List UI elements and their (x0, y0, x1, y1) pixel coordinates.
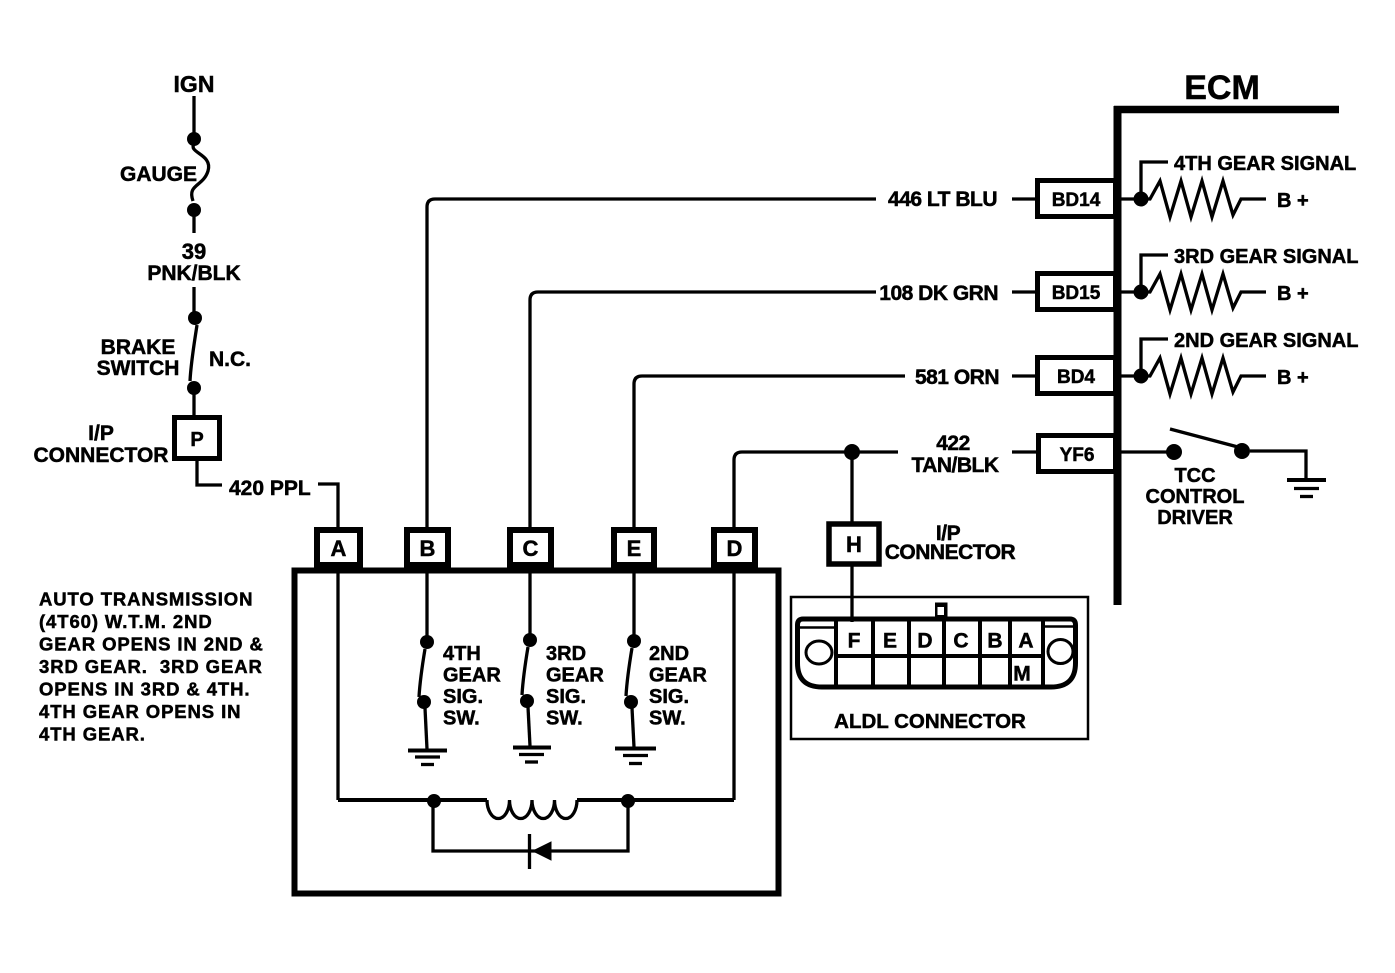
diode cathode bar (528, 834, 531, 869)
ALDL right eyelet (1048, 640, 1073, 664)
terminal box C (510, 530, 551, 565)
svg-text:CONNECTOR: CONNECTOR (34, 444, 169, 467)
svg-text:IGN: IGN (174, 71, 215, 97)
svg-text:ECM: ECM (1184, 69, 1260, 107)
3rd gear switch wire from C (528, 568, 531, 636)
3rd gear switch bottom dot (520, 694, 534, 708)
terminal box B (407, 530, 448, 565)
svg-text:B: B (420, 536, 436, 561)
wire fuse to label 39 (192, 214, 195, 233)
svg-text:B: B (987, 630, 1002, 653)
junction dot 4th gear signal (1134, 192, 1149, 207)
svg-text:I/P: I/P (88, 422, 114, 445)
connector BD14 (1038, 181, 1116, 217)
wire up to 2ND GEAR SIGNAL label (1141, 339, 1168, 376)
svg-text:A: A (331, 536, 347, 561)
svg-text:BD14: BD14 (1052, 190, 1101, 211)
solenoid coil (487, 800, 577, 819)
wire 581 into BD4 (1012, 374, 1040, 377)
4th gear switch top dot (420, 635, 434, 649)
note text AUTO TRANSMISSION (39, 589, 264, 745)
ALDL outer box (791, 597, 1088, 739)
svg-text:SWITCH: SWITCH (97, 357, 180, 380)
svg-text:OPENS IN 3RD & 4TH.: OPENS IN 3RD & 4TH. (39, 679, 250, 700)
ALDL cell grid (836, 619, 1043, 687)
ground 3rd gear switch (513, 746, 551, 750)
wire IGN to fuse (192, 96, 195, 136)
svg-text:SW.: SW. (443, 708, 480, 730)
4th gear switch bottom dot (417, 695, 431, 709)
wire 446 into BD14 (1012, 197, 1040, 200)
terminal box E (614, 530, 654, 565)
2nd gear switch wire from E (632, 568, 635, 638)
svg-text:108 DK GRN: 108 DK GRN (879, 282, 998, 305)
connector YF6 (1039, 436, 1116, 472)
svg-text:581 ORN: 581 ORN (915, 366, 999, 389)
svg-text:SW.: SW. (649, 708, 686, 730)
svg-text:SIG.: SIG. (546, 686, 586, 708)
connector BD4 (1038, 358, 1116, 394)
svg-text:(4T60) W.T.M. 2ND: (4T60) W.T.M. 2ND (39, 611, 213, 632)
wire terminal E up and right to 581 ORN (634, 376, 905, 530)
wire 108 into BD15 (1012, 290, 1040, 293)
svg-text:2ND GEAR SIGNAL: 2ND GEAR SIGNAL (1174, 330, 1358, 352)
svg-text:SIG.: SIG. (443, 686, 483, 708)
fuse GAUGE symbol (192, 144, 209, 201)
4th gear switch wire to ground (425, 708, 427, 749)
svg-text:BRAKE: BRAKE (101, 336, 176, 359)
ECM top horizontal line (1114, 106, 1339, 114)
wire 420 PPL to terminal A (318, 484, 338, 528)
svg-text:BD4: BD4 (1057, 367, 1095, 388)
resistor 3rd gear signal (1141, 274, 1266, 310)
svg-text:DRIVER: DRIVER (1157, 507, 1233, 529)
svg-text:GEAR: GEAR (546, 665, 604, 687)
svg-text:4TH GEAR SIGNAL: 4TH GEAR SIGNAL (1174, 153, 1356, 175)
wire TCC switch to ground (1250, 451, 1306, 478)
ground 2nd gear switch (615, 747, 656, 751)
svg-text:SIG.: SIG. (649, 686, 689, 708)
wire BD4 to junction (1118, 374, 1141, 377)
svg-text:M: M (1013, 663, 1031, 686)
wire H to ALDL connector (850, 564, 853, 622)
svg-text:B +: B + (1277, 367, 1309, 389)
svg-text:AUTO TRANSMISSION: AUTO TRANSMISSION (39, 589, 253, 610)
3rd gear switch blade (522, 647, 528, 695)
svg-text:YF6: YF6 (1060, 445, 1095, 466)
svg-text:GEAR: GEAR (649, 665, 707, 687)
svg-text:F: F (848, 630, 861, 653)
svg-text:E: E (627, 536, 642, 561)
TCC switch right dot (1234, 443, 1250, 459)
I/P connector P box (175, 418, 220, 459)
wire terminal D up and right to 422 TAN/BLK (734, 452, 898, 530)
svg-text:4TH: 4TH (443, 643, 481, 665)
svg-text:C: C (953, 630, 968, 653)
wire P connector down and right (197, 460, 222, 485)
svg-text:E: E (883, 630, 897, 653)
3rd gear switch wire to ground (528, 707, 530, 746)
2nd gear switch wire to ground (632, 708, 634, 747)
resistor 2nd gear signal (1141, 358, 1266, 394)
TCC switch blade (1170, 429, 1238, 447)
svg-text:PNK/BLK: PNK/BLK (147, 262, 240, 285)
svg-text:GEAR: GEAR (443, 665, 501, 687)
svg-text:4TH GEAR OPENS IN: 4TH GEAR OPENS IN (39, 701, 241, 722)
svg-text:3RD GEAR SIGNAL: 3RD GEAR SIGNAL (1174, 246, 1358, 268)
ALDL left eyelet (806, 641, 832, 664)
svg-text:2ND: 2ND (649, 643, 689, 665)
3rd gear switch top dot (523, 633, 537, 647)
wire up to 3RD GEAR SIGNAL label (1141, 255, 1168, 292)
junction dot 3rd gear signal (1134, 285, 1149, 300)
svg-text:D: D (727, 536, 743, 561)
svg-text:TAN/BLK: TAN/BLK (911, 454, 998, 477)
4th gear switch blade (419, 649, 425, 697)
brake switch bottom dot (187, 381, 201, 395)
svg-text:420 PPL: 420 PPL (229, 477, 311, 500)
2nd gear switch bottom dot (624, 695, 638, 709)
resistor 4th gear signal (1141, 181, 1266, 217)
svg-text:39: 39 (182, 239, 206, 264)
terminal box A (317, 530, 360, 565)
svg-text:B +: B + (1277, 190, 1309, 212)
svg-text:D: D (917, 630, 932, 653)
ALDL cap inner lines (798, 626, 836, 629)
svg-text:C: C (523, 536, 539, 561)
wire brake switch to I/P connector P (192, 394, 195, 416)
svg-text:BD15: BD15 (1052, 283, 1101, 304)
wire BD14 to junction (1118, 197, 1141, 200)
junction dot bus right (621, 794, 635, 808)
2nd gear switch top dot (627, 634, 641, 648)
junction dot above fuse (187, 132, 201, 146)
svg-text:CONNECTOR: CONNECTOR (885, 541, 1016, 564)
ECM vertical line (1114, 106, 1122, 605)
2nd gear switch blade (626, 648, 632, 696)
svg-text:GEAR OPENS IN 2ND &: GEAR OPENS IN 2ND & (39, 634, 264, 655)
wire junction down to H (850, 452, 853, 524)
junction dot 422 to H (844, 444, 860, 460)
junction dot 2nd gear signal (1134, 369, 1149, 384)
svg-text:TCC: TCC (1174, 465, 1215, 487)
wire terminal B up and right to 446 LT BLU (427, 199, 876, 530)
wire BD15 to junction (1118, 290, 1141, 293)
svg-text:B +: B + (1277, 283, 1309, 305)
svg-text:CONTROL: CONTROL (1146, 486, 1245, 508)
brake switch blade (190, 325, 197, 381)
ground 4th gear switch (408, 749, 447, 753)
svg-text:SW.: SW. (546, 708, 583, 730)
ground TCC (1287, 478, 1326, 482)
diode branch wire (433, 801, 628, 851)
svg-text:3RD: 3RD (546, 643, 586, 665)
svg-text:P: P (190, 429, 203, 451)
junction dot below fuse (187, 203, 201, 217)
svg-text:N.C.: N.C. (209, 348, 251, 371)
connector BD15 (1038, 274, 1116, 310)
4th gear switch wire from B (425, 568, 428, 638)
diode triangle (533, 842, 551, 860)
terminal box D (714, 530, 755, 565)
svg-text:4TH GEAR.: 4TH GEAR. (39, 724, 146, 745)
ALDL top tab (935, 603, 948, 618)
wire up to 4TH GEAR SIGNAL label (1141, 162, 1168, 199)
brake switch top dot (188, 311, 202, 325)
svg-text:H: H (846, 532, 862, 557)
TCC switch left dot (1166, 444, 1182, 460)
ALDL connector body (798, 619, 1076, 687)
svg-text:GAUGE: GAUGE (120, 163, 197, 186)
wire terminal A down inside transmission (336, 568, 339, 800)
junction dot bus left (427, 794, 441, 808)
wire 39 PNK/BLK to brake switch (192, 287, 195, 312)
svg-text:422: 422 (936, 432, 970, 455)
wire 422 into YF6 (1012, 450, 1040, 453)
wire terminal D down inside transmission (732, 568, 735, 800)
wire YF6 to TCC switch (1118, 450, 1167, 453)
wire terminal C up and right to 108 DK GRN (530, 292, 876, 530)
svg-text:A: A (1018, 630, 1033, 653)
svg-text:446 LT BLU: 446 LT BLU (888, 188, 997, 211)
svg-text:ALDL CONNECTOR: ALDL CONNECTOR (834, 710, 1026, 733)
transmission outline box (295, 571, 779, 894)
bottom bus wire A to D (338, 798, 487, 802)
svg-text:3RD GEAR. 3RD GEAR: 3RD GEAR. 3RD GEAR (39, 656, 263, 677)
terminal box H (829, 524, 879, 564)
